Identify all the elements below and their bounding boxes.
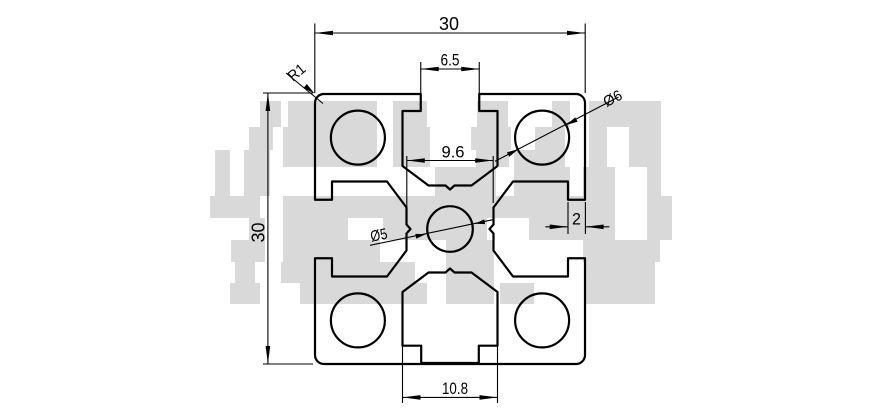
svg-text:10.8: 10.8 bbox=[442, 380, 468, 398]
bottom closed slot cavity bbox=[403, 269, 498, 364]
svg-text:30: 30 bbox=[249, 223, 269, 243]
svg-text:2: 2 bbox=[572, 211, 581, 229]
dimension 2 right lip bbox=[545, 202, 609, 234]
svg-text:6.5: 6.5 bbox=[441, 52, 460, 70]
corner hole bottom-right bbox=[515, 293, 569, 347]
svg-text:R1: R1 bbox=[285, 60, 310, 85]
corner hole bottom-left bbox=[331, 293, 385, 347]
leader diameter 5 center hole bbox=[370, 220, 494, 246]
svg-text:30: 30 bbox=[439, 14, 459, 34]
leader R1 corner radius bbox=[286, 73, 323, 104]
center hole bbox=[427, 206, 473, 252]
dimension 30 left bbox=[263, 93, 313, 364]
watermark gray glyph blocks bbox=[210, 101, 672, 304]
profile outline 30x30 extrusion bbox=[315, 94, 585, 364]
dimension 6.5 top slot opening bbox=[421, 62, 480, 94]
leader diameter 6 corner hole bbox=[495, 97, 619, 161]
dimension 30 top : extension + dim lines bbox=[315, 24, 585, 94]
corner hole top-left bbox=[331, 111, 385, 165]
svg-text:Ø5: Ø5 bbox=[369, 226, 389, 246]
corner hole top-right bbox=[515, 111, 569, 165]
svg-text:9.6: 9.6 bbox=[442, 144, 465, 162]
dimension 9.6 core width bbox=[407, 156, 493, 226]
dimension 10.8 bottom cavity bbox=[403, 344, 498, 403]
